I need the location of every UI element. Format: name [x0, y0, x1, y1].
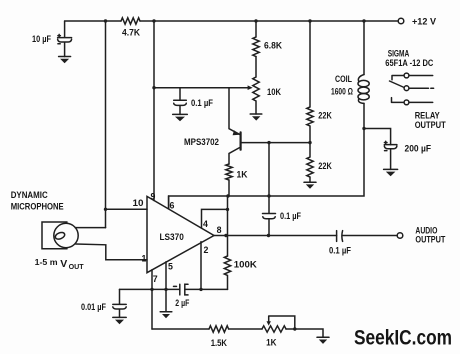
wire pin2 lead — [200, 242, 202, 290]
svg-text:2 µF: 2 µF — [175, 298, 189, 308]
wire mic bias line — [105, 21, 107, 228]
ground — [384, 169, 398, 176]
svg-text:SeekIC.com: SeekIC.com — [354, 327, 452, 350]
svg-text:1: 1 — [142, 253, 147, 263]
ground — [173, 114, 188, 121]
ground — [317, 337, 329, 344]
node pin7-feedback — [150, 288, 153, 291]
svg-text:200 µF: 200 µF — [405, 144, 432, 154]
svg-text:7: 7 — [153, 274, 158, 284]
node base-22K — [308, 141, 311, 144]
node pin2-feedback — [199, 288, 202, 291]
node 1K-pin6net — [226, 194, 229, 197]
ground — [250, 114, 262, 121]
svg-text:OUT: OUT — [69, 264, 85, 271]
svg-text:4.7K: 4.7K — [122, 28, 141, 38]
wire audio output line — [214, 235, 397, 237]
svg-text:0.01 µF: 0.01 µF — [81, 302, 107, 312]
node pin10 tap — [104, 208, 107, 211]
node rail-6.8K — [254, 19, 257, 22]
op-amp U1 LS370 — [147, 196, 214, 272]
terminal audio output — [397, 233, 403, 239]
wire pin6 lead — [168, 196, 170, 209]
wire +12V top rail — [65, 20, 398, 22]
wire mic top lead — [75, 227, 105, 229]
svg-text:0.1 µF: 0.1 µF — [280, 211, 302, 221]
svg-text:1600 Ω: 1600 Ω — [331, 87, 353, 97]
terminal +12V — [398, 18, 404, 24]
capacitor C3 200uF — [384, 141, 397, 169]
wire coil bottom to pin6 net — [169, 103, 364, 208]
svg-text:1.5K: 1.5K — [211, 338, 228, 348]
resistor R7 100K — [224, 256, 230, 289]
wire pin10 — [106, 208, 148, 210]
svg-text:8: 8 — [217, 225, 222, 235]
node output-column — [224, 234, 227, 237]
svg-text:65F1A -12 DC: 65F1A -12 DC — [385, 58, 434, 68]
capacitor C6 0.1uF coupling — [337, 231, 343, 242]
node pin5-feedback — [164, 288, 167, 291]
svg-text:0.1 µF: 0.1 µF — [191, 98, 214, 108]
wire base line — [242, 142, 310, 144]
wire 200uF branch — [364, 129, 391, 145]
node coil-200uF — [362, 127, 365, 130]
relay contacts SPDT — [390, 73, 434, 105]
capacitor C1 10uF — [58, 21, 72, 57]
microphone MIC1 — [42, 222, 78, 249]
capacitor C5 0.01uF — [113, 289, 126, 317]
svg-text:V: V — [60, 258, 67, 270]
svg-text:4: 4 — [203, 219, 208, 229]
svg-text:2: 2 — [204, 245, 209, 255]
node C7-output — [267, 234, 270, 237]
svg-text:10 µF: 10 µF — [32, 34, 52, 44]
wire emitter/V+ line — [154, 87, 248, 89]
node rail-22K — [308, 19, 311, 22]
wire pin9 supply line — [153, 21, 155, 201]
svg-text:LS370: LS370 — [160, 232, 184, 242]
svg-text:10K: 10K — [267, 87, 282, 97]
node pin4-column — [226, 208, 229, 211]
svg-text:+12 V: +12 V — [412, 17, 436, 27]
svg-text:5: 5 — [168, 262, 173, 272]
svg-text:9: 9 — [151, 192, 156, 202]
resistor R8 1.5K — [209, 326, 229, 332]
svg-text:OUTPUT: OUTPUT — [415, 235, 446, 245]
ground — [113, 317, 126, 324]
svg-text:RELAY: RELAY — [415, 110, 440, 120]
node pot jumper — [293, 327, 296, 330]
transistor Q1 MPS3702 — [229, 88, 241, 164]
potentiometer R3 10K — [248, 57, 260, 115]
capacitor C2 0.1uF — [174, 88, 187, 115]
svg-text:OUTPUT: OUTPUT — [415, 120, 447, 130]
node rail-mic — [104, 19, 107, 22]
svg-text:1K: 1K — [266, 338, 277, 348]
node C7-pin6net — [267, 194, 270, 197]
resistor R5 22K — [307, 143, 313, 183]
node rail-coil — [362, 19, 365, 22]
wire pin7 lead — [151, 270, 153, 329]
resistor R6 1K — [226, 164, 232, 196]
wire pin4 lead — [202, 209, 228, 227]
svg-text:1-5 m: 1-5 m — [35, 257, 58, 267]
svg-text:1K: 1K — [237, 170, 249, 180]
resistor R4 22K — [307, 21, 313, 143]
wire between 1.5K and pot — [229, 328, 262, 330]
svg-text:100K: 100K — [234, 260, 258, 270]
svg-text:6: 6 — [170, 201, 175, 211]
wire coil branch — [363, 21, 365, 75]
node rail-pin9 — [152, 19, 155, 22]
wire bottom net — [152, 328, 209, 330]
wire pot to ground — [286, 329, 323, 337]
svg-text:22K: 22K — [318, 161, 332, 171]
resistor R1 4.7K — [121, 18, 140, 24]
svg-text:MICROPHONE: MICROPHONE — [11, 201, 64, 211]
svg-text:22K: 22K — [318, 111, 332, 121]
wire mic bottom lead to pin1 — [76, 244, 147, 260]
svg-text:6.8K: 6.8K — [264, 41, 283, 51]
capacitor C7 0.1uF — [263, 143, 276, 236]
ground — [59, 57, 71, 64]
node base-C7 — [267, 141, 270, 144]
resistor R2 6.8K — [253, 21, 259, 57]
ground — [160, 312, 172, 318]
potentiometer R9 1K — [262, 316, 295, 332]
svg-text:0.1 µF: 0.1 µF — [329, 246, 352, 256]
svg-text:MPS3702: MPS3702 — [184, 137, 219, 147]
svg-text:COIL: COIL — [335, 74, 353, 84]
ground — [304, 182, 316, 189]
capacitor C4 2uF — [174, 284, 189, 295]
wire output node column — [227, 196, 229, 256]
svg-text:DYNAMIC: DYNAMIC — [11, 190, 49, 200]
wire feedback net — [120, 288, 228, 290]
inductor L1 relay coil 1600 ohm — [358, 75, 369, 104]
node emitter supply — [152, 86, 155, 89]
wire pin5 lead — [165, 262, 167, 312]
svg-text:10: 10 — [133, 198, 144, 208]
